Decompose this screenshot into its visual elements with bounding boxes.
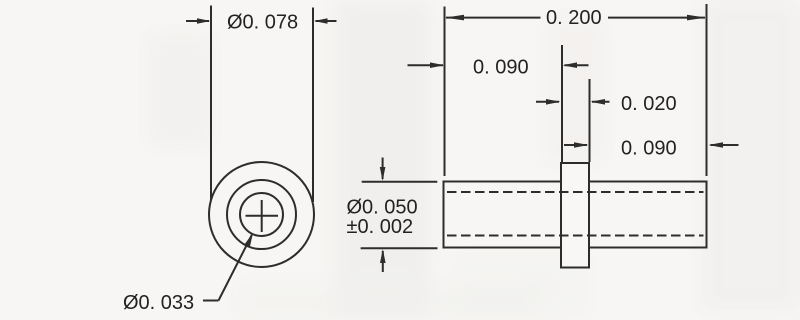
- side view body rectangle: [444, 182, 707, 248]
- hidden line upper dashed: [447, 191, 704, 193]
- dim line 0.090 right right tail: [711, 144, 739, 146]
- extension line right end 0.200: [706, 4, 708, 176]
- center mark horizontal: [246, 215, 279, 217]
- extension line flange left: [561, 45, 563, 162]
- center mark vertical: [261, 200, 263, 232]
- hidden line lower dashed: [447, 235, 704, 237]
- extension line left of dia 0.078: [210, 6, 212, 201]
- svg-text:±0. 002: ±0. 002: [347, 216, 414, 238]
- arrowhead dia 0.050 up: [380, 249, 386, 263]
- dim line 0.090 right left tail: [564, 144, 587, 146]
- extension line dia 0.050 bottom: [361, 247, 438, 249]
- dim line 0.200 left segment: [446, 17, 541, 19]
- svg-text:0. 200: 0. 200: [546, 7, 602, 29]
- dim line 0.090 left tail: [408, 64, 444, 66]
- arrow stem dia 0.050 bottom: [382, 251, 384, 272]
- arrowhead 0.090R left: [574, 142, 589, 148]
- arrow stem dia 0.050 top: [382, 158, 384, 180]
- extension line left end 0.200: [444, 7, 446, 177]
- dim line left arrow tail dia 0.078: [186, 20, 209, 22]
- svg-text:Ø0. 033: Ø0. 033: [123, 292, 194, 314]
- arrowhead leader dia 0.033: [245, 233, 253, 247]
- dim line 0.020 right tail: [592, 101, 610, 103]
- dim line 0.200 right segment: [608, 17, 705, 19]
- svg-text:Ø0. 078: Ø0. 078: [227, 12, 298, 34]
- svg-text:0. 090: 0. 090: [473, 57, 529, 79]
- arrowhead 0.200 right: [687, 15, 706, 21]
- arrowhead 0.090 flange-left: [563, 62, 578, 68]
- dim line 0.020 left tail: [536, 101, 559, 103]
- svg-text:0. 090: 0. 090: [621, 138, 677, 160]
- front view inner circle: [240, 193, 283, 236]
- leader line dia 0.033: [219, 235, 252, 301]
- dim line 0.090 right tail: [565, 64, 589, 66]
- arrowhead 0.020 left: [546, 99, 561, 105]
- side view flange rectangle: [561, 163, 589, 268]
- front view middle circle: [227, 180, 296, 249]
- arrowhead 0.020 right: [591, 99, 606, 105]
- leader tail dia 0.033: [203, 300, 219, 302]
- front view outer circle: [209, 162, 314, 267]
- arrowhead dia 0.078 left: [197, 18, 211, 24]
- arrowhead dia 0.078 right: [314, 18, 328, 24]
- svg-text:0. 020: 0. 020: [621, 93, 677, 115]
- extension line dia 0.050 top: [362, 181, 438, 183]
- extension line right of dia 0.078: [312, 8, 314, 203]
- arrowhead dia 0.050 down: [380, 167, 386, 181]
- arrowhead 0.090 left: [430, 62, 445, 68]
- arrowhead 0.090R right: [709, 142, 724, 148]
- extension line flange right: [589, 79, 591, 162]
- dim line right arrow tail dia 0.078: [316, 20, 337, 22]
- arrowhead 0.200 left: [445, 15, 464, 21]
